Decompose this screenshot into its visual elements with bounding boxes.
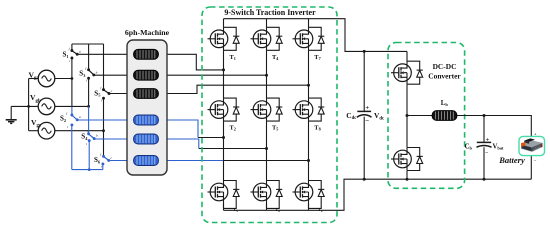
source Vga [38, 70, 55, 87]
svg-text:+: + [365, 105, 369, 112]
wire: S5 upper stem [103, 44, 105, 90]
svg-text:Converter: Converter [428, 71, 461, 80]
node: DC-DC bottom tap [406, 178, 409, 181]
capacitor Cdc leads [363, 51, 365, 179]
wire: Vga to feeder a [55, 78, 72, 80]
transistor T1 [208, 27, 240, 50]
wire: star bus of upper winding set [72, 43, 104, 45]
wire: Vgb to feeder b [55, 105, 89, 107]
transistor T9 [293, 181, 325, 209]
svg-text:DC-DC: DC-DC [433, 62, 457, 71]
node: leg3 lower [307, 159, 310, 162]
switch S1 [63, 47, 82, 63]
winding coil 4 [134, 115, 159, 125]
switch S6 [94, 153, 113, 169]
transistor T4 [251, 27, 283, 50]
transistor T6 [251, 181, 283, 209]
svg-text:a: a [79, 115, 81, 119]
capacitor Cb plates [477, 141, 491, 143]
node: Vga tap [71, 77, 74, 80]
wire: phase 1 (S1 to machine to inverter leg1 upper node) [77, 54, 223, 70]
wire: phase 6 blue (S6 to machine to leg3 lower node) [109, 160, 223, 162]
wire: S1 upper stem [71, 44, 73, 51]
transistor T8 [293, 98, 325, 121]
wire: feeder a upper (black) [71, 58, 73, 107]
svg-text:−: − [485, 150, 488, 156]
node: leg3 upper [307, 84, 310, 87]
wire: DC-DC axis segments [406, 51, 408, 179]
wire: neutral bus vertical [28, 79, 30, 131]
node: Cb top [483, 114, 486, 117]
node: Vgc tap [102, 129, 105, 132]
wire: Lb to battery branch [456, 116, 531, 180]
wire: leg3 axis segments [308, 19, 310, 211]
node: leg2 lower [265, 147, 268, 150]
wire: ground to neutral bus and Vgb left terminal [11, 105, 38, 107]
DC-DC Converter dashed box [388, 43, 465, 189]
winding coil 6 [134, 156, 159, 166]
wire: phase 3 (S5 to machine to inverter leg3 upper node) [109, 85, 309, 93]
node: DC-DC mid [406, 114, 409, 117]
capacitor Cb leads [483, 116, 485, 180]
wire: phase 4 black tail [198, 137, 224, 139]
node: S4 drop junction [88, 168, 91, 171]
wire: mid node to Lb [407, 115, 433, 117]
svg-text:Battery: Battery [498, 155, 525, 165]
switch S4 [81, 129, 98, 146]
node: Cdc top [363, 50, 366, 53]
wire: Vga left stub [29, 78, 39, 80]
node: Cdc bottom [363, 178, 366, 181]
node: neutral bus / ground junction [27, 105, 30, 108]
wire: S6 drop [102, 164, 104, 170]
winding coil 1 [134, 49, 159, 59]
wire: phase 5 black tail [199, 148, 267, 150]
node: Vgb tap [87, 105, 90, 108]
wire: leg1 axis segments [223, 19, 225, 211]
winding coil 3 [134, 89, 159, 99]
source Vgc [38, 122, 55, 139]
wire: feeder b upper (black) [88, 78, 90, 106]
wire: phase 5 blue (S4 to machine to leg2 lower node) [94, 139, 199, 149]
capacitor Cdc plates [357, 110, 371, 112]
svg-text:a: a [79, 50, 81, 54]
wire: feeder b lower (blue) [88, 106, 90, 133]
wire: S4 drop [88, 141, 90, 170]
wire: phase 6 black tail [223, 160, 309, 162]
switch S2 [60, 111, 81, 129]
wire: S3 upper stem [88, 44, 90, 70]
machine body [127, 40, 167, 175]
switch S5 [94, 86, 113, 102]
wire: Vgc to feeder c [55, 130, 104, 132]
inductor Lb [432, 111, 457, 121]
svg-text:9-Switch Traction Inverter: 9-Switch Traction Inverter [224, 8, 316, 17]
wire: inverter top DC bus [224, 19, 408, 52]
wire: star bus of lower winding set (blue) [72, 169, 103, 171]
node: leg1 lower [222, 136, 225, 139]
transistor T5 [251, 98, 283, 121]
switch S3 [79, 66, 97, 82]
node: Cb bottom [483, 178, 486, 181]
svg-text:b: b [96, 133, 98, 137]
9-Switch Traction Inverter dashed box [202, 7, 337, 223]
ground [6, 106, 17, 123]
wire: leg2 axis segments [266, 19, 268, 211]
transistor T2 [208, 98, 240, 121]
wire: feeder c lower [103, 98, 105, 156]
transistor DC-DC upper [391, 61, 423, 84]
source Vgb [38, 98, 55, 115]
wire: feeder a lower (blue) [71, 107, 73, 115]
svg-text:+: + [486, 136, 490, 143]
wire: phase 4 blue (S2 to machine to leg1 lower node) [77, 120, 198, 138]
svg-text:−: − [365, 117, 369, 125]
winding coil 2 [134, 70, 159, 80]
wire: S2 drop to star bus of lower winding set [71, 125, 73, 170]
transistor T7 [293, 27, 325, 50]
winding coil 5 [134, 134, 159, 144]
node: leg2 upper [265, 74, 268, 77]
wire: Vgc left stub [29, 130, 39, 132]
svg-text:6ph-Machine: 6ph-Machine [125, 28, 170, 37]
node: leg1 upper [222, 68, 225, 71]
battery icon [519, 136, 545, 155]
wire: inverter bottom DC bus [224, 179, 532, 210]
transistor DC-DC lower [391, 148, 423, 171]
wire: phase 2 (S3 to machine to inverter leg2 upper node) [94, 74, 267, 76]
transistor T3 [208, 181, 240, 209]
svg-text:b: b [96, 70, 98, 74]
